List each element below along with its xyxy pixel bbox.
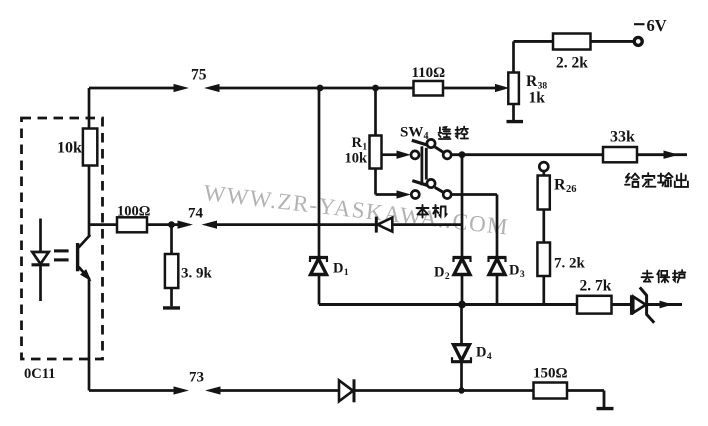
svg-text:150Ω: 150Ω [533,366,568,382]
svg-text:R: R [554,177,566,194]
svg-text:R: R [526,73,538,90]
svg-text:75: 75 [191,67,207,84]
svg-text:0C11: 0C11 [24,366,55,382]
svg-text:6V: 6V [647,16,667,35]
svg-text:26: 26 [566,184,577,195]
svg-text:74: 74 [188,206,204,222]
svg-text:73: 73 [189,370,204,386]
svg-text:110Ω: 110Ω [412,65,446,81]
svg-text:100Ω: 100Ω [117,204,150,220]
svg-text:D: D [434,265,444,281]
svg-text:2. 7k: 2. 7k [580,278,612,295]
svg-text:10k: 10k [57,140,82,157]
svg-text:R: R [352,135,363,151]
svg-text:4: 4 [487,352,492,362]
svg-text:1: 1 [344,268,349,278]
svg-text:2: 2 [445,272,450,282]
svg-text:D: D [333,261,343,277]
svg-text:D: D [476,345,486,361]
svg-text:3. 9k: 3. 9k [181,266,213,282]
svg-text:2. 2k: 2. 2k [556,55,588,72]
svg-text:D: D [509,263,519,279]
svg-text:10k: 10k [345,151,369,167]
svg-text:1k: 1k [529,90,546,107]
svg-text:4: 4 [424,131,429,142]
svg-text:7. 2k: 7. 2k [554,256,586,272]
svg-text:33k: 33k [610,129,635,146]
svg-text:3: 3 [520,270,525,280]
svg-text:SW: SW [400,125,423,141]
